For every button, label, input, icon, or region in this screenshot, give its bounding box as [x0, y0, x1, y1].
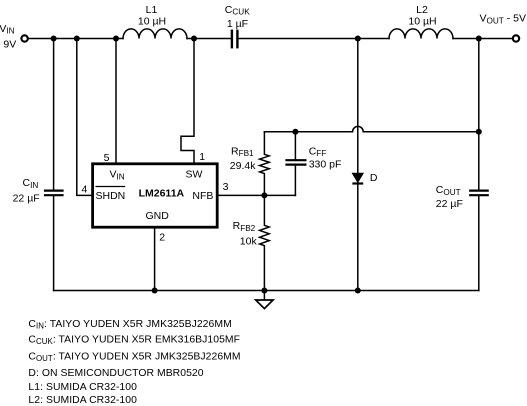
svg-text:SHDN: SHDN — [96, 190, 126, 202]
resistor RFB1 — [260, 132, 270, 196]
node top CIN — [51, 36, 57, 42]
svg-text:4: 4 — [81, 184, 87, 196]
svg-text:CCUK: TAIYO YUDEN X5R EMK316BJ: CCUK: TAIYO YUDEN X5R EMK316BJ105MF — [28, 334, 240, 346]
wire CCUK to L2 — [239, 38, 390, 40]
svg-text:COUT: TAIYO YUDEN X5R JMK325BJ: COUT: TAIYO YUDEN X5R JMK325BJ226MM — [28, 352, 240, 364]
node feedback NFB — [261, 192, 267, 198]
capacitor COUT — [470, 191, 488, 196]
ground symbol stub — [263, 291, 265, 300]
svg-text:L1: L1 — [146, 4, 158, 16]
node top SHDN — [74, 36, 80, 42]
wire CIN branch lower — [53, 196, 55, 290]
svg-text:22 µF: 22 µF — [13, 193, 40, 205]
node top VOUT — [476, 36, 482, 42]
svg-text:1: 1 — [199, 151, 205, 163]
svg-text:10k: 10k — [240, 235, 258, 247]
wire diode branch — [357, 39, 359, 291]
svg-text:CCUK: CCUK — [225, 4, 250, 17]
svg-text:VIN: VIN — [0, 23, 15, 36]
node bottom ground — [261, 288, 267, 294]
svg-text:D: ON SEMICONDUCTOR MBR0520: D: ON SEMICONDUCTOR MBR0520 — [28, 368, 203, 379]
svg-text:10 µH: 10 µH — [408, 15, 436, 27]
diode D — [352, 173, 363, 183]
node feedback right — [476, 129, 482, 135]
resistor RFB2 — [260, 195, 270, 290]
svg-text:CIN: TAIYO YUDEN X5R JMK325BJ2: CIN: TAIYO YUDEN X5R JMK325BJ226MM — [28, 319, 231, 331]
junction node dots — [51, 36, 482, 294]
wire bottom ground rail — [54, 290, 479, 292]
op-amp / IC U1 LM2611A box — [93, 164, 218, 227]
wire COUT branch lower — [478, 196, 480, 290]
svg-text:CFF: CFF — [309, 145, 327, 158]
svg-text:CIN: CIN — [23, 177, 39, 190]
wire L1 to CCUK — [187, 38, 231, 40]
svg-text:VOUT - 5V: VOUT - 5V — [480, 13, 527, 26]
inductor L1 — [123, 29, 187, 39]
svg-text:VIN: VIN — [110, 169, 125, 182]
svg-text:L1: SUMIDA CR32-100: L1: SUMIDA CR32-100 — [28, 382, 137, 393]
terminal VIN — [21, 35, 27, 41]
svg-text:1 µF: 1 µF — [227, 18, 248, 30]
node CFF top — [292, 129, 298, 135]
overline for SHDN — [96, 186, 126, 188]
node bottom diode — [355, 288, 361, 294]
svg-text:330 pF: 330 pF — [309, 158, 342, 170]
svg-text:SW: SW — [186, 169, 203, 181]
capacitor CFF — [294, 132, 296, 160]
svg-text:29.4k: 29.4k — [230, 160, 256, 172]
svg-text:GND: GND — [146, 210, 170, 222]
wire NFB pin 3 to feedback node — [217, 194, 295, 196]
svg-text:22 µF: 22 µF — [436, 198, 463, 210]
svg-text:5: 5 — [104, 152, 110, 164]
svg-text:RFB2: RFB2 — [233, 220, 256, 233]
wire CIN branch upper — [53, 39, 55, 190]
wire SHDN branch — [77, 39, 91, 196]
wire top rail input segment — [28, 38, 123, 40]
svg-text:3: 3 — [223, 181, 229, 193]
wire COUT branch upper — [478, 39, 480, 190]
node bottom GND pin — [152, 288, 158, 294]
wire feedback rail with hop over diode branch — [264, 126, 478, 131]
svg-text:L2: SUMIDA CR32-100: L2: SUMIDA CR32-100 — [28, 395, 137, 406]
svg-text:2: 2 — [159, 232, 165, 244]
terminal VOUT — [513, 35, 519, 41]
node top SW — [191, 36, 197, 42]
wire GND pin 2 branch — [154, 227, 156, 290]
svg-text:10 µH: 10 µH — [138, 15, 166, 27]
svg-text:COUT: COUT — [436, 184, 461, 197]
svg-text:RFB1: RFB1 — [231, 145, 254, 158]
svg-text:D: D — [370, 172, 378, 184]
ground symbol — [256, 300, 273, 309]
capacitor CIN — [45, 191, 63, 196]
svg-text:LM2611A: LM2611A — [139, 187, 185, 199]
inductor L2 — [389, 29, 453, 39]
wire SW pin 1 branch with jog — [181, 39, 194, 164]
node top diode — [355, 36, 361, 42]
svg-text:NFB: NFB — [192, 190, 213, 202]
svg-text:9V: 9V — [3, 39, 16, 51]
wire L2 to VOUT terminal — [453, 38, 513, 40]
capacitor CCUK — [232, 31, 238, 47]
node top VIN pin — [113, 36, 119, 42]
wire VIN pin 5 branch — [115, 39, 117, 164]
svg-text:L2: L2 — [416, 4, 428, 16]
